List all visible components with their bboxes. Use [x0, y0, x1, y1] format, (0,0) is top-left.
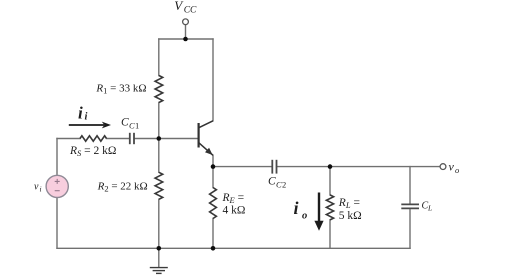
svg-text:L: L [427, 204, 432, 213]
wire bottom rail [57, 247, 410, 249]
svg-text:2: 2 [282, 180, 286, 190]
svg-text:i: i [78, 103, 83, 122]
svg-text:C: C [268, 176, 276, 188]
wire left column below R2 to bottom rail [158, 199, 160, 248]
node RL junction [328, 164, 333, 169]
svg-text:i: i [294, 198, 299, 218]
arrow io [314, 193, 323, 231]
wire input top segment and to CC1 [57, 138, 130, 140]
node vo terminal [440, 164, 446, 170]
svg-text:v: v [34, 182, 39, 193]
svg-text:C: C [121, 117, 129, 129]
capacitor CL [401, 204, 419, 208]
ground [150, 268, 168, 274]
wire CL column top [409, 167, 411, 203]
transistor Q1 [199, 121, 213, 156]
node ground junction [157, 246, 162, 251]
capacitor CC2 [272, 160, 276, 174]
svg-text:R2 = 22 kΩ: R2 = 22 kΩ [97, 180, 148, 193]
node VCC junction [183, 37, 188, 42]
wire top rail [159, 38, 213, 40]
svg-text:V: V [174, 0, 184, 13]
svg-text:CC: CC [184, 5, 197, 15]
wire VCC stub [185, 25, 187, 40]
wire below RE [212, 219, 214, 249]
source vi [46, 175, 68, 197]
svg-text:R1 = 33 kΩ: R1 = 33 kΩ [95, 82, 146, 95]
svg-text:5 kΩ: 5 kΩ [339, 210, 362, 222]
transistor emitter arrow [205, 148, 213, 155]
node E junction [211, 164, 216, 169]
capacitor CC1 [130, 133, 134, 144]
svg-text:v: v [449, 159, 455, 173]
svg-text:o: o [455, 165, 459, 175]
wire left rail lower [56, 198, 58, 249]
wire CC1 to base [134, 138, 198, 140]
wire CC2 to vo terminal [277, 166, 440, 168]
wire left column above R1 [158, 39, 160, 76]
wire CL column bottom [409, 210, 411, 249]
svg-text:o: o [302, 210, 307, 221]
svg-text:RS = 2 kΩ: RS = 2 kΩ [69, 145, 116, 158]
wire emitter stub [212, 155, 214, 166]
wire left rail upper [56, 139, 58, 176]
wire RL column top [329, 167, 331, 195]
arrow ii [69, 122, 111, 129]
svg-text:4 kΩ: 4 kΩ [223, 205, 246, 217]
wire collector column [212, 39, 214, 121]
svg-text:1: 1 [135, 121, 139, 131]
svg-text:RL =: RL = [338, 197, 360, 210]
svg-text:i: i [85, 112, 88, 123]
resistor R1 [155, 76, 163, 103]
node B junction [157, 136, 162, 141]
wire emitter column to RE [212, 167, 214, 188]
resistor RL [326, 195, 333, 220]
resistor R2 [155, 172, 163, 199]
node RE bottom junction [211, 246, 216, 251]
resistor RS [80, 136, 107, 142]
svg-text:i: i [40, 185, 42, 194]
svg-text:RE =: RE = [222, 192, 245, 205]
wire RL column bottom [329, 220, 331, 248]
wire left column between R1 and node B [158, 103, 160, 173]
wire ground stub [158, 248, 160, 267]
node VCC terminal [183, 19, 189, 25]
wire output to CC2 [213, 166, 272, 168]
resistor RE [210, 188, 217, 219]
